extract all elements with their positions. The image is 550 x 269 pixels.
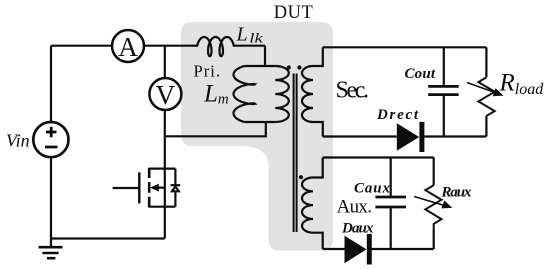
voltmeter V1 [149,78,181,110]
svg-text:Raux: Raux [441,185,473,201]
transformer auxiliary winding [302,158,323,250]
wire secondary bottom rail [323,135,487,137]
wire Rload branch [485,47,487,136]
wire bottom [51,237,165,239]
ammeter A1 [112,30,144,62]
wire Cout branch [443,47,445,136]
resistor Rload [478,77,494,116]
body diode D1 [171,169,181,207]
arrow through Rload [467,83,504,97]
wire aux top rail [323,156,434,158]
transformer primary winding [244,66,289,122]
wire aux bottom rail [323,248,434,250]
arrow through Raux [414,197,452,209]
capacitor Cout [428,86,459,94]
capacitor Caux [375,197,406,207]
node dot primary [287,65,291,69]
node dot secondary [297,65,301,69]
wire V branch / drain-source vertical [164,46,166,239]
svg-text:Drect: Drect [376,107,419,123]
wire top rail [51,45,265,47]
svg-text:Vin: Vin [6,131,30,151]
transistor Q1 MOSFET [113,168,176,208]
svg-text:Cout: Cout [405,66,436,82]
resistor Raux [425,185,441,228]
wire left vertical [50,46,52,247]
svg-text:Aux.: Aux. [337,197,373,218]
wire primary bottom to drain [165,122,266,136]
svg-text:Sec.: Sec. [336,78,370,104]
svg-text:L: L [236,24,248,46]
svg-text:Caux: Caux [354,180,391,196]
MOSFET bulk arrow [150,184,159,192]
svg-text:V: V [156,80,176,110]
inductor Lm [234,66,255,122]
source Vin [33,122,68,157]
svg-text:DUT: DUT [274,3,314,23]
wire Raux branch [433,158,435,250]
wire Llk to primary top [264,46,266,66]
svg-text:Pri.: Pri. [194,61,221,80]
inductor Llk [197,37,234,56]
svg-text:A: A [118,32,138,62]
transformer secondary winding [302,47,323,136]
ground [39,247,63,258]
diode Daux [345,234,372,265]
wire secondary top rail [323,46,487,48]
diode Drect [397,122,425,152]
svg-text:lk: lk [249,31,264,46]
node dot auxiliary [299,175,303,179]
wire Caux branch [390,158,392,250]
svg-text:Daux: Daux [341,221,374,237]
svg-text:Rload: Rload [499,70,545,99]
DUT shaded region [181,22,333,251]
transformer core [294,74,297,233]
